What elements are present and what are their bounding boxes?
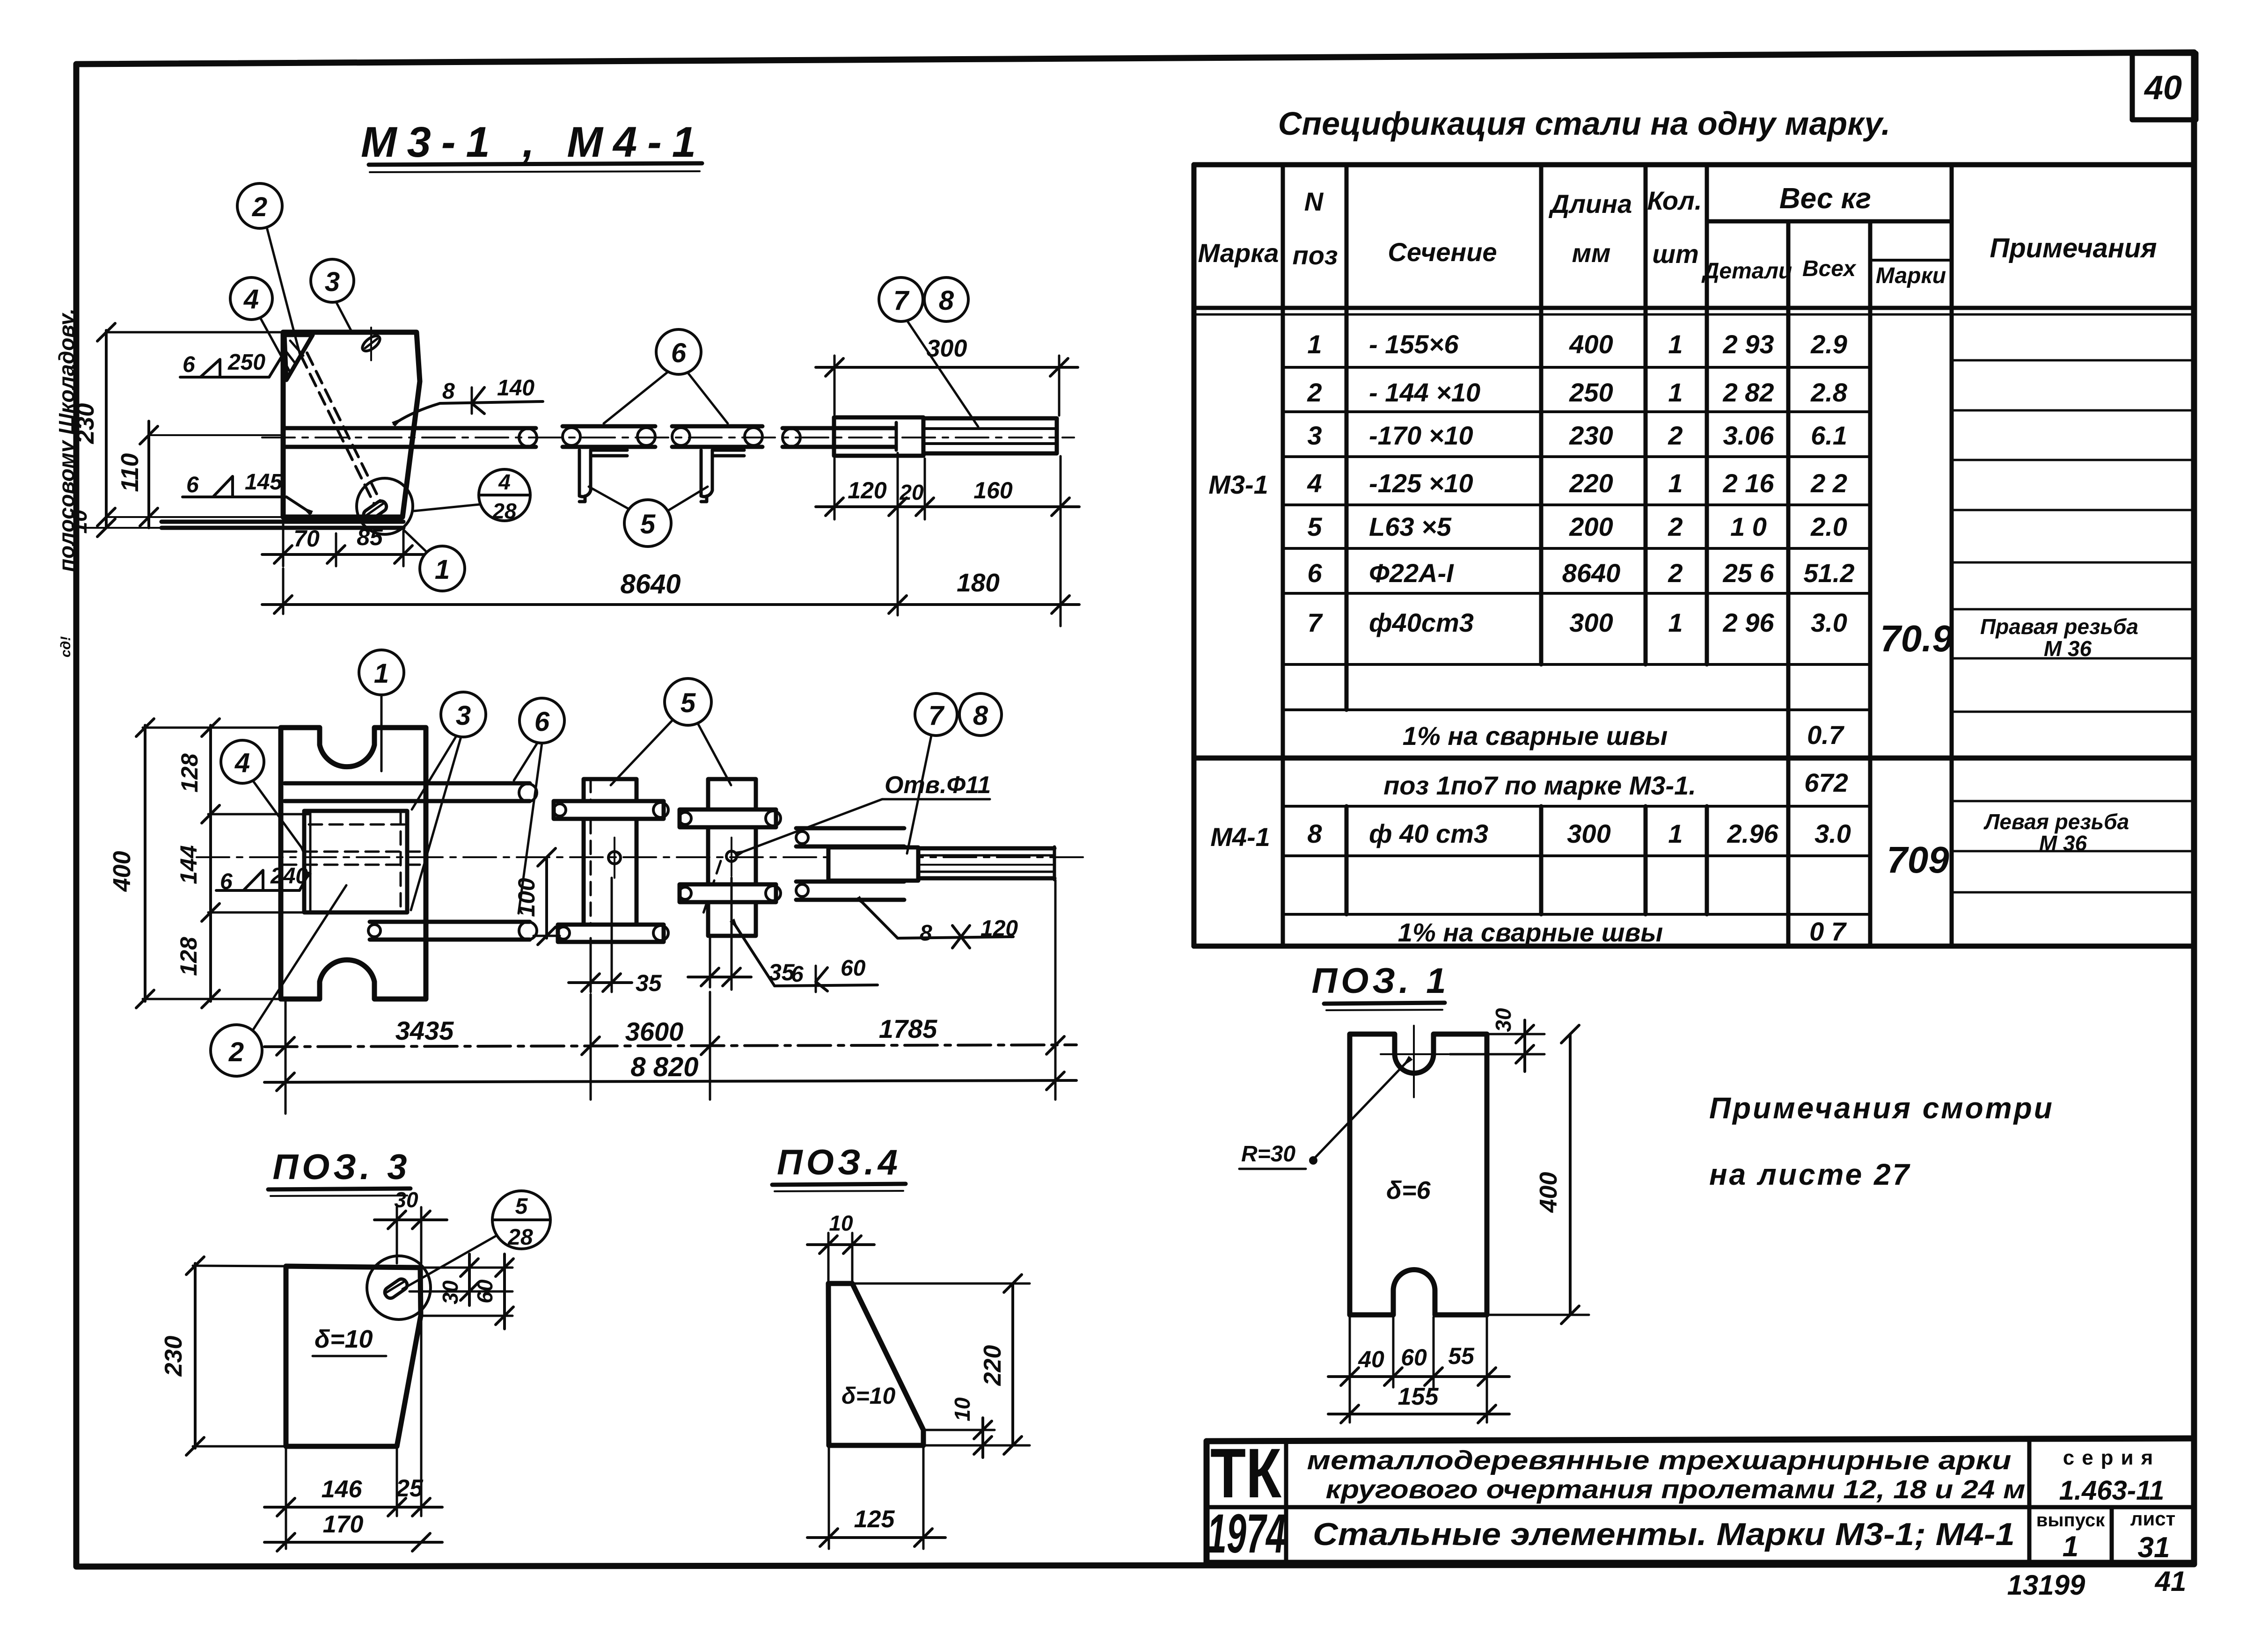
- pos4 title: [772, 1143, 906, 1191]
- svg-text:2 93: 2 93: [1723, 329, 1774, 359]
- svg-text:М3-1: М3-1: [1208, 470, 1268, 499]
- svg-text:28: 28: [492, 499, 517, 523]
- svg-text:1 0: 1 0: [1730, 512, 1767, 541]
- threaded rod poz.8: [918, 847, 1054, 880]
- svg-text:Сечение: Сечение: [1388, 237, 1497, 267]
- dim 70 85: [262, 519, 424, 566]
- svg-text:Марки: Марки: [1876, 263, 1946, 288]
- svg-text:ПОЗ. 1: ПОЗ. 1: [1311, 961, 1449, 1001]
- pos4 dim 10 top: [807, 1211, 874, 1281]
- svg-text:Всех: Всех: [1802, 256, 1857, 281]
- left margin rotated stamp text: [54, 308, 79, 657]
- svg-text:6.1: 6.1: [1811, 421, 1847, 450]
- svg-text:28: 28: [507, 1225, 533, 1250]
- svg-text:8: 8: [442, 379, 455, 404]
- svg-text:300: 300: [1569, 608, 1613, 637]
- pos4 dim 220 right: [855, 1275, 1030, 1454]
- weld mark 6-240: [216, 864, 309, 894]
- svg-text:230: 230: [1569, 421, 1613, 450]
- svg-text:60: 60: [841, 956, 866, 981]
- pos3 dims 146 25 170: [264, 1317, 442, 1551]
- dim 35 group A: [569, 878, 662, 996]
- tie rod poz.6 segment C with angle poz.5: [672, 426, 762, 502]
- svg-text:поз: поз: [1293, 241, 1338, 270]
- svg-text:3.0: 3.0: [1814, 819, 1851, 848]
- svg-text:41: 41: [2155, 1566, 2187, 1597]
- svg-text:35: 35: [768, 959, 795, 985]
- svg-text:Детали: Детали: [1701, 259, 1792, 284]
- svg-text:230: 230: [160, 1336, 187, 1377]
- spec table grid: [1194, 165, 2194, 946]
- svg-text:2: 2: [1668, 512, 1683, 541]
- svg-text:2: 2: [1668, 558, 1683, 588]
- svg-text:М3-1 , М4-1: М3-1 , М4-1: [361, 118, 706, 166]
- svg-text:170: 170: [323, 1511, 364, 1538]
- svg-text:- 144 ×10: - 144 ×10: [1369, 378, 1480, 407]
- svg-text:Вес кг: Вес кг: [1779, 182, 1871, 215]
- svg-text:2: 2: [1307, 378, 1322, 407]
- svg-text:мм: мм: [1572, 238, 1611, 268]
- svg-text:8: 8: [939, 285, 954, 316]
- callout 3 plan: [411, 692, 486, 910]
- rod stubs at sleeve: [796, 828, 904, 900]
- bottom dims 3435 3600 1785: [264, 880, 1076, 1114]
- svg-text:2 16: 2 16: [1723, 468, 1775, 498]
- centre line: [197, 856, 1090, 858]
- pos4 plate outline: [828, 1283, 923, 1445]
- svg-text:60: 60: [1401, 1344, 1427, 1371]
- svg-text:7: 7: [929, 700, 945, 731]
- svg-text:13199: 13199: [2007, 1569, 2085, 1601]
- pos3 plate outline: [286, 1266, 421, 1446]
- callout 5 plan: [611, 678, 731, 785]
- svg-text:1: 1: [1307, 329, 1322, 359]
- svg-text:δ=10: δ=10: [841, 1383, 896, 1409]
- svg-text:Левая резьба: Левая резьба: [1983, 809, 2129, 834]
- svg-text:на листе 27: на листе 27: [1709, 1158, 1911, 1191]
- svg-text:1: 1: [435, 554, 450, 585]
- svg-text:Примечания смотри: Примечания смотри: [1709, 1091, 2054, 1125]
- svg-text:2.9: 2.9: [1810, 329, 1847, 359]
- pos1 radius label R=30: [1239, 1058, 1410, 1169]
- svg-text:1: 1: [1668, 329, 1683, 359]
- svg-text:3435: 3435: [395, 1016, 454, 1045]
- dim 400 left: [109, 719, 279, 1008]
- callout 1 plan: [359, 650, 404, 771]
- svg-text:1% на сварные швы: 1% на сварные швы: [1403, 721, 1668, 751]
- callout 2: [237, 183, 300, 355]
- svg-text:10: 10: [950, 1397, 974, 1422]
- svg-text:144: 144: [176, 845, 202, 884]
- callout 4: [230, 277, 289, 371]
- dim 35 group B: [688, 878, 795, 990]
- svg-text:160: 160: [973, 477, 1013, 503]
- dim 8640 and 180: [262, 568, 1079, 614]
- svg-text:70: 70: [293, 525, 320, 552]
- svg-text:40: 40: [1358, 1346, 1384, 1372]
- svg-text:672: 672: [1804, 768, 1848, 797]
- svg-text:0 7: 0 7: [1809, 917, 1847, 946]
- callout 6 plan: [514, 698, 564, 913]
- svg-text:Длина: Длина: [1549, 189, 1632, 219]
- corner gusset poz.4 hatched: [285, 335, 313, 380]
- dim 230 left: [72, 323, 285, 528]
- svg-text:709: 709: [1887, 839, 1949, 881]
- weld mark 6-K-60: [732, 921, 878, 992]
- anchor bolt top: [360, 328, 382, 360]
- pos4 dim 10 small right: [926, 1397, 995, 1458]
- svg-text:Марка: Марка: [1198, 238, 1279, 268]
- svg-text:140: 140: [497, 376, 534, 401]
- svg-text:2: 2: [228, 1037, 244, 1067]
- weld mark 8-X-120: [858, 898, 1018, 948]
- svg-text:8640: 8640: [620, 569, 680, 599]
- svg-text:7: 7: [893, 285, 910, 316]
- svg-text:ПОЗ.4: ПОЗ.4: [777, 1143, 901, 1182]
- pos1 dim 30: [1450, 1008, 1544, 1072]
- svg-text:220: 220: [1569, 468, 1613, 498]
- tie rod poz.6 segment B with angle poz.5: [563, 426, 655, 502]
- svg-text:2.8: 2.8: [1810, 378, 1848, 407]
- svg-text:25 6: 25 6: [1723, 558, 1775, 588]
- svg-text:поз 1по7 по марке М3-1.: поз 1по7 по марке М3-1.: [1383, 771, 1696, 800]
- svg-text:1974: 1974: [1207, 1503, 1286, 1565]
- tie rod plan upper: [285, 783, 537, 802]
- svg-text:230: 230: [72, 403, 99, 445]
- svg-text:шт: шт: [1652, 239, 1699, 269]
- svg-text:128: 128: [176, 937, 202, 976]
- svg-text:3.0: 3.0: [1811, 608, 1847, 637]
- svg-text:4: 4: [498, 470, 511, 494]
- svg-text:1785: 1785: [879, 1014, 937, 1043]
- svg-text:2.96: 2.96: [1727, 819, 1779, 848]
- svg-text:146: 146: [322, 1476, 363, 1503]
- svg-text:7: 7: [1307, 608, 1323, 637]
- pos3 title: [268, 1147, 411, 1196]
- svg-text:2: 2: [252, 192, 267, 222]
- svg-text:кругового очертания пролетам: кругового очертания пролетами 12, 18 и 2…: [1326, 1474, 2026, 1504]
- svg-text:Правая резьба: Правая резьба: [1980, 614, 2138, 639]
- sleeve poz.7 plan: [828, 847, 918, 881]
- svg-text:ТК: ТК: [1210, 1434, 1281, 1512]
- svg-text:55: 55: [1448, 1343, 1475, 1369]
- gusset plate poz.1 plan: [281, 728, 426, 999]
- hole label Otv F11: [737, 772, 991, 854]
- callout 7 8: [879, 277, 978, 427]
- dim 120 20 160: [816, 453, 1079, 626]
- tie rod poz.6 segment A: [262, 428, 1074, 447]
- svg-text:6: 6: [186, 473, 199, 497]
- svg-text:180: 180: [957, 568, 1000, 597]
- pos1 dim 400: [1489, 1025, 1589, 1324]
- drawing title M3-1, M4-1: [361, 118, 706, 172]
- svg-text:-170 ×10: -170 ×10: [1369, 421, 1473, 450]
- svg-text:металлодеревянные трехшарнирн: металлодеревянные трехшарнирные арки: [1307, 1445, 2012, 1475]
- svg-text:155: 155: [1398, 1383, 1439, 1410]
- svg-text:5: 5: [640, 509, 656, 540]
- svg-text:2 82: 2 82: [1723, 378, 1774, 407]
- callout 2 plan: [211, 885, 346, 1076]
- svg-text:250: 250: [227, 350, 265, 375]
- svg-text:1: 1: [1668, 468, 1683, 498]
- svg-text:120: 120: [848, 477, 887, 503]
- svg-text:250: 250: [1569, 378, 1613, 407]
- weld mark 8-K-140: [394, 376, 543, 424]
- svg-text:Примечания: Примечания: [1990, 233, 2157, 263]
- svg-text:6: 6: [1307, 558, 1322, 588]
- pos3 dim 230 left: [160, 1257, 284, 1455]
- svg-text:3.06: 3.06: [1723, 421, 1775, 450]
- svg-text:31: 31: [2138, 1531, 2170, 1564]
- spec table header text: [1198, 182, 2157, 288]
- svg-text:3600: 3600: [625, 1017, 684, 1046]
- svg-text:- 155×6: - 155×6: [1369, 329, 1459, 359]
- svg-text:70.9: 70.9: [1880, 618, 1953, 659]
- svg-text:3: 3: [325, 267, 340, 297]
- svg-text:1: 1: [1668, 819, 1683, 848]
- svg-text:300: 300: [1567, 819, 1610, 848]
- svg-text:Отв.Ф11: Отв.Ф11: [885, 772, 991, 799]
- svg-text:ПОЗ. 3: ПОЗ. 3: [272, 1147, 410, 1187]
- svg-text:5: 5: [1307, 512, 1322, 541]
- pos1 dims 40 60 55: [1328, 1317, 1509, 1422]
- svg-text:М 36: М 36: [2039, 831, 2087, 855]
- callout 3: [311, 259, 354, 330]
- svg-text:Спецификация стали на одну: Спецификация стали на одну марку.: [1278, 105, 1890, 142]
- svg-text:145: 145: [245, 470, 283, 495]
- svg-text:δ=10: δ=10: [315, 1325, 373, 1353]
- svg-text:L63 ×5: L63 ×5: [1369, 512, 1452, 541]
- callout 4 plan: [221, 740, 305, 853]
- base plate poz.1 edge view: [161, 522, 403, 528]
- washer plate poz.2: [283, 811, 424, 912]
- svg-text:400: 400: [1569, 329, 1613, 359]
- callout fraction 4/28: [414, 469, 530, 523]
- angle poz.5 group B: [679, 779, 781, 936]
- title block text: [1207, 1434, 2175, 1565]
- svg-text:N: N: [1304, 187, 1324, 216]
- svg-text:выпуск: выпуск: [2036, 1510, 2105, 1531]
- svg-text:δ=6: δ=6: [1386, 1176, 1431, 1204]
- pos1 plate outline: [1350, 1034, 1487, 1315]
- angle poz.5 group A: [554, 779, 668, 942]
- pos3 thickness note: [313, 1325, 386, 1356]
- svg-text:85: 85: [357, 524, 383, 550]
- svg-text:35: 35: [636, 970, 662, 996]
- dim 8820: [264, 1052, 1076, 1091]
- svg-text:100: 100: [513, 878, 540, 917]
- svg-text:М 36: М 36: [2044, 636, 2092, 661]
- svg-text:20: 20: [899, 480, 924, 504]
- callout 1: [403, 530, 465, 591]
- pos3 callout 5/28: [402, 1191, 550, 1289]
- svg-text:4: 4: [234, 748, 250, 778]
- svg-text:-125 ×10: -125 ×10: [1369, 468, 1473, 498]
- svg-text:1: 1: [374, 658, 389, 689]
- pos4 dim 125: [807, 1448, 945, 1549]
- pos1 thickness note: [1386, 1176, 1431, 1204]
- svg-text:2 96: 2 96: [1723, 608, 1775, 637]
- svg-text:220: 220: [979, 1345, 1006, 1386]
- svg-text:ф 40 ст3: ф 40 ст3: [1369, 819, 1488, 848]
- svg-text:110: 110: [117, 453, 144, 492]
- svg-text:6: 6: [671, 338, 687, 368]
- svg-text:Ф22А-I: Ф22А-I: [1369, 558, 1454, 588]
- svg-text:8: 8: [920, 921, 932, 946]
- svg-text:1: 1: [1668, 378, 1683, 407]
- svg-text:1: 1: [1668, 608, 1683, 637]
- notes text: [1709, 1091, 2054, 1191]
- tie rod poz.6 segment D: [783, 428, 895, 447]
- svg-text:1% на сварные швы: 1% на сварные швы: [1398, 918, 1663, 947]
- svg-text:0.7: 0.7: [1807, 720, 1845, 750]
- svg-text:2.0: 2.0: [1810, 512, 1847, 541]
- svg-text:1.463-11: 1.463-11: [2059, 1475, 2165, 1506]
- sheet number box 40: [2132, 53, 2196, 120]
- weld mark 6-145: [183, 470, 311, 513]
- svg-text:30: 30: [438, 1280, 462, 1305]
- callout 6 pair leaders: [604, 329, 728, 423]
- svg-text:3: 3: [456, 700, 471, 731]
- tie rod plan lower: [368, 922, 537, 940]
- svg-text:8 820: 8 820: [630, 1052, 698, 1082]
- pos1 title: [1311, 961, 1449, 1010]
- turnbuckle sleeve poz.7: [834, 417, 1057, 456]
- svg-text:10: 10: [67, 510, 91, 534]
- svg-text:25: 25: [395, 1475, 424, 1502]
- pos3 dim 30 top: [374, 1188, 447, 1263]
- svg-text:30: 30: [1491, 1008, 1515, 1032]
- footer numbers: [2007, 1566, 2187, 1601]
- svg-text:4: 4: [1307, 468, 1322, 498]
- dim 300: [816, 335, 1078, 416]
- svg-text:М4-1: М4-1: [1210, 822, 1270, 852]
- svg-text:128: 128: [176, 753, 203, 793]
- svg-text:серия: серия: [2063, 1446, 2161, 1469]
- callout 7 8 plan: [907, 693, 1002, 853]
- spec table rows text: [1208, 329, 2138, 947]
- dim 110 left: [117, 421, 284, 528]
- svg-text:125: 125: [854, 1506, 895, 1533]
- pos1 notch centre lines: [1381, 1026, 1449, 1097]
- dim 128 144 128: [176, 719, 309, 1008]
- spec table title: [1278, 105, 1890, 142]
- pos3 dims 30 60 right: [410, 1254, 513, 1329]
- hidden tie rod dashed: [301, 353, 380, 504]
- title block grid: [1207, 1438, 2194, 1563]
- svg-text:400: 400: [109, 851, 136, 892]
- pos4 thickness note: [841, 1383, 896, 1409]
- dim 100: [513, 848, 560, 945]
- svg-text:8: 8: [1307, 819, 1322, 848]
- svg-text:8640: 8640: [1562, 558, 1621, 588]
- svg-text:R=30: R=30: [1241, 1142, 1295, 1167]
- svg-text:ф40ст3: ф40ст3: [1369, 608, 1474, 637]
- svg-text:2: 2: [1668, 421, 1683, 450]
- pos3 detail circle: [367, 1256, 431, 1320]
- callout 5 pair leaders: [589, 487, 708, 547]
- svg-text:40: 40: [2144, 69, 2182, 107]
- svg-text:10: 10: [829, 1211, 853, 1235]
- svg-text:5: 5: [680, 688, 696, 718]
- svg-text:6: 6: [183, 352, 195, 377]
- svg-text:51.2: 51.2: [1804, 558, 1855, 588]
- svg-text:сд!: сд!: [58, 636, 73, 657]
- svg-text:лист: лист: [2130, 1508, 2175, 1530]
- weld mark 6-250: [180, 350, 285, 377]
- pos3 bolt: [383, 1277, 409, 1300]
- dim 10 left: [67, 508, 284, 537]
- svg-text:8: 8: [973, 700, 988, 731]
- svg-text:Кол.: Кол.: [1647, 186, 1702, 215]
- svg-text:4: 4: [243, 284, 259, 314]
- svg-text:3: 3: [1307, 421, 1322, 450]
- svg-text:300: 300: [927, 335, 967, 362]
- svg-text:Стальные элементы. Марки М3-: Стальные элементы. Марки М3-1; М4-1: [1313, 1517, 2015, 1552]
- svg-text:60: 60: [473, 1279, 497, 1304]
- svg-text:30: 30: [394, 1188, 418, 1212]
- svg-text:200: 200: [1569, 512, 1613, 541]
- bolt detail circle: [357, 478, 413, 534]
- svg-text:5: 5: [515, 1194, 528, 1219]
- plate poz.3 outline: [283, 332, 420, 517]
- pos1 dim 155: [1328, 1383, 1509, 1423]
- svg-text:1: 1: [2063, 1531, 2078, 1563]
- svg-text:6: 6: [534, 707, 550, 737]
- svg-text:2 2: 2 2: [1810, 468, 1847, 498]
- svg-text:400: 400: [1535, 1172, 1562, 1213]
